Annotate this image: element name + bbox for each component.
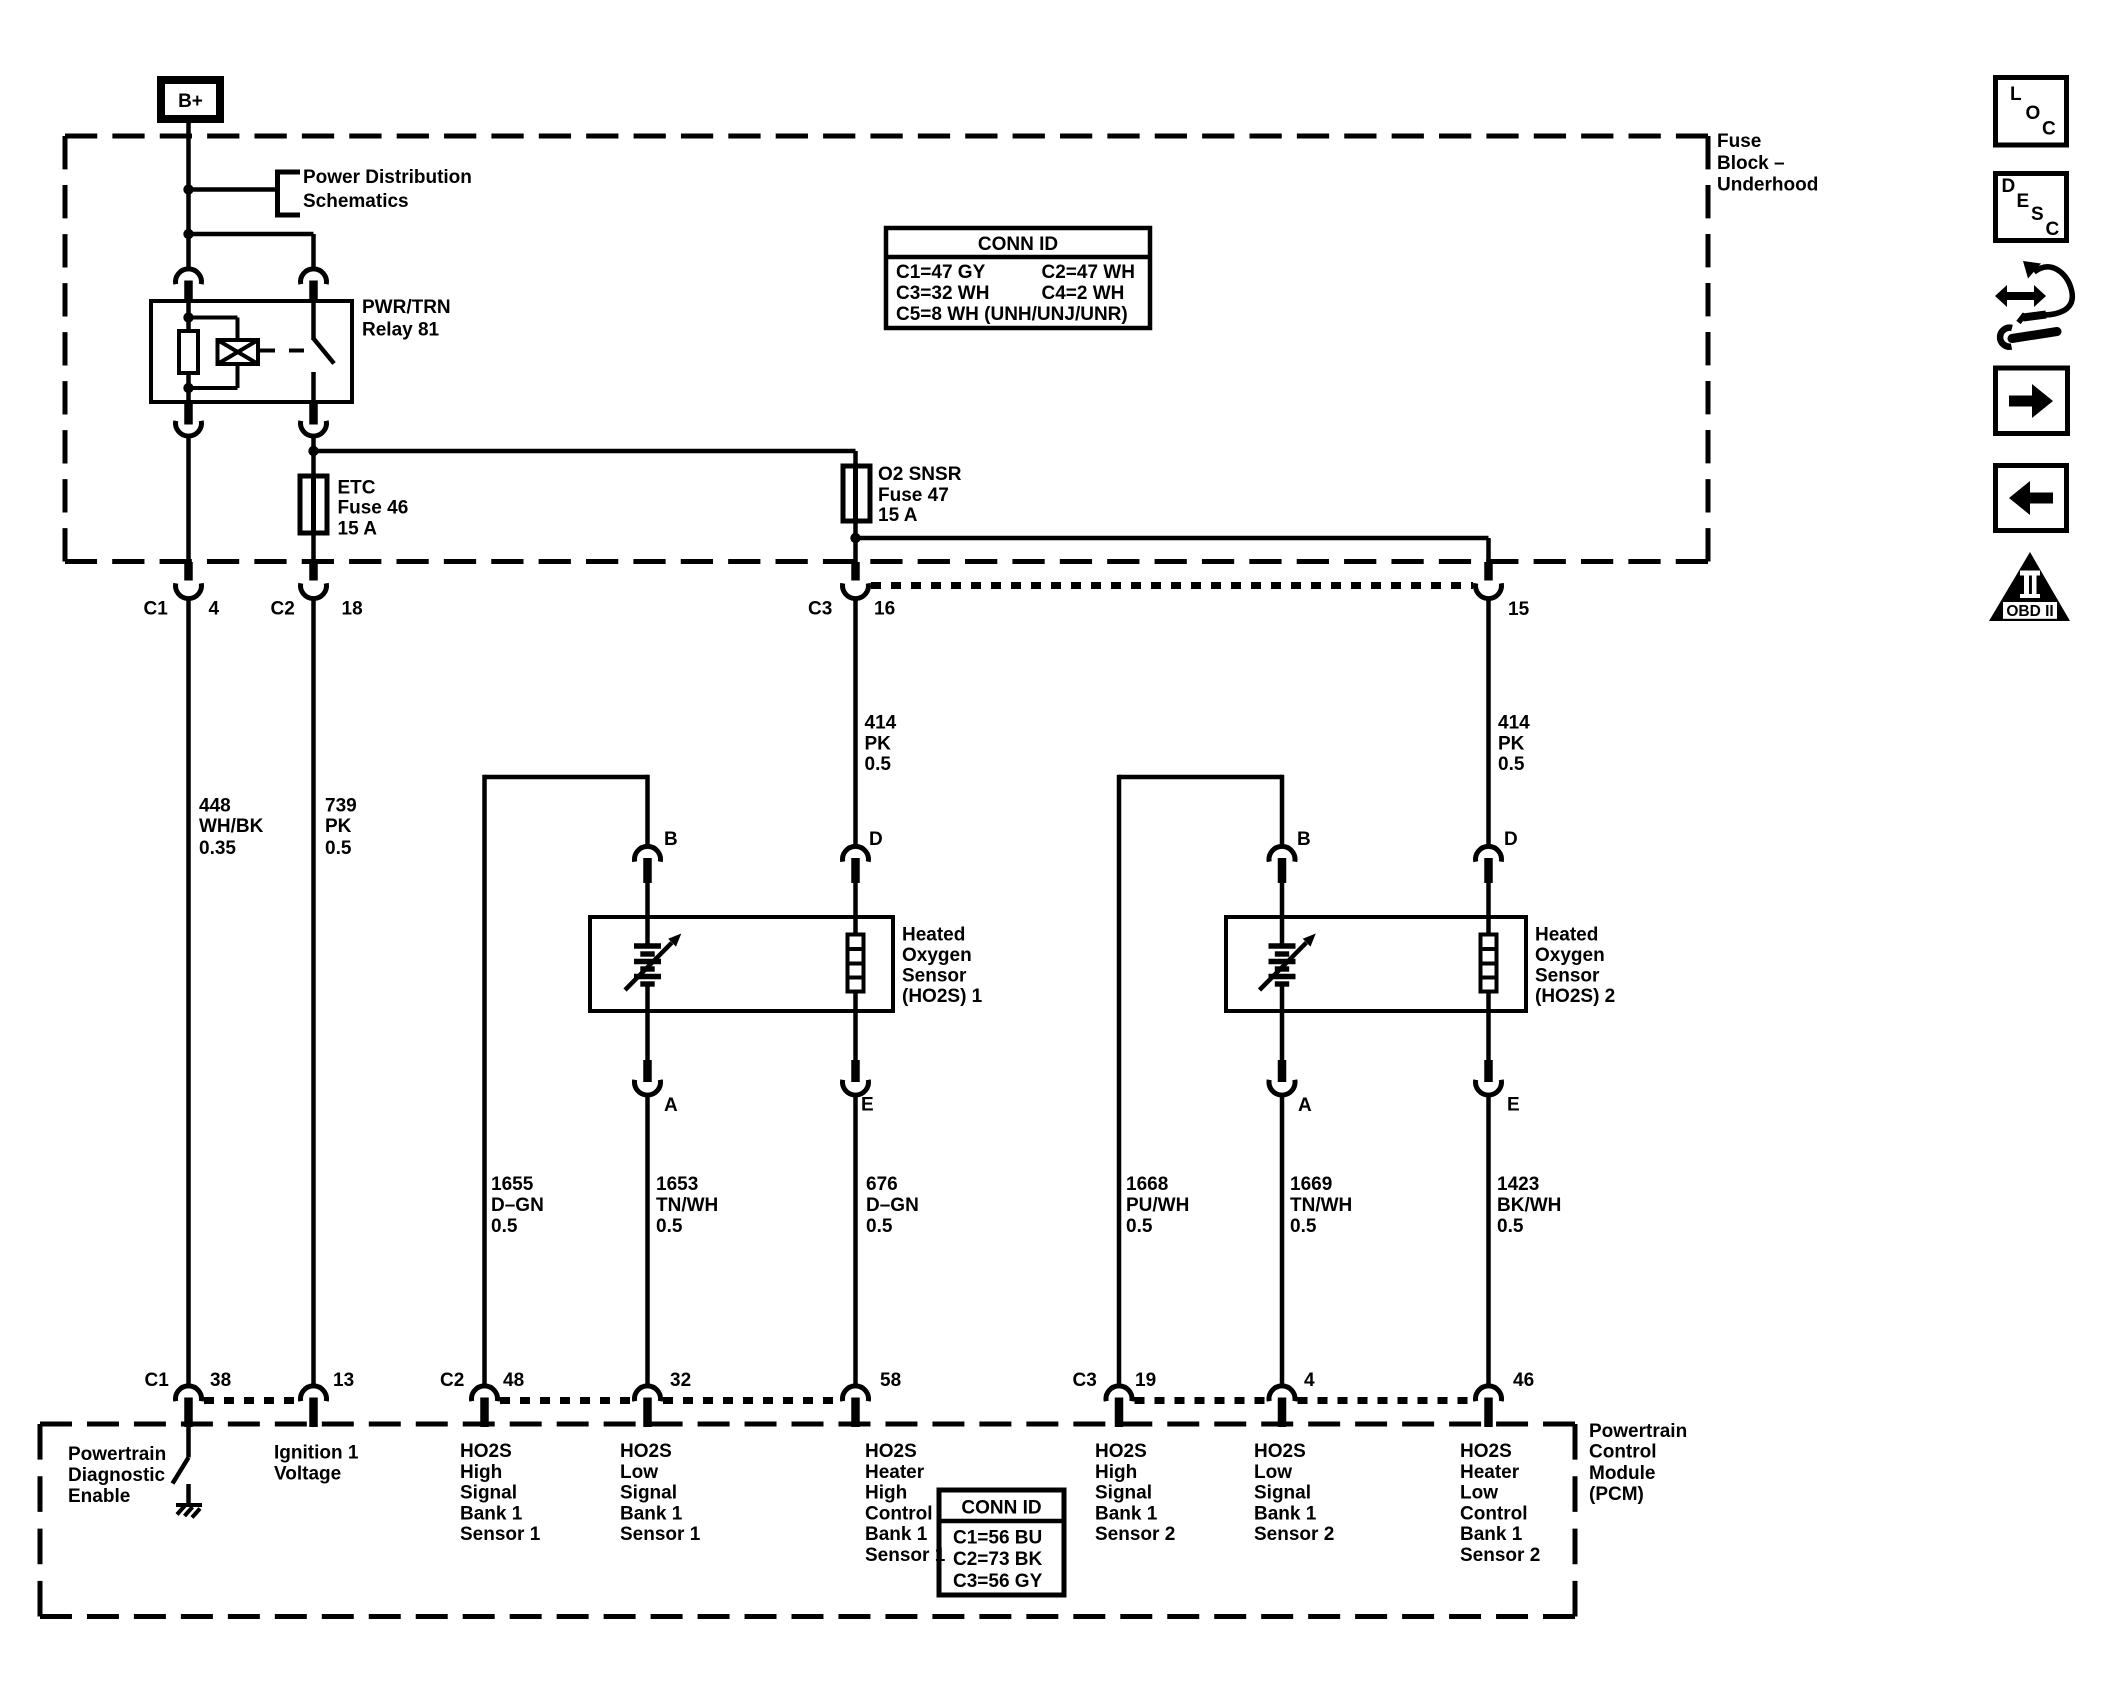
svg-text:38: 38 [210,1370,231,1391]
svg-text:OBD II: OBD II [2006,603,2053,620]
svg-text:Powertrain: Powertrain [1589,1421,1687,1442]
svg-text:Low: Low [1254,1462,1292,1483]
svg-text:Schematics: Schematics [303,191,409,212]
svg-text:(PCM): (PCM) [1589,1484,1644,1505]
svg-text:L: L [2010,84,2022,105]
svg-text:1668: 1668 [1126,1174,1168,1195]
svg-text:32: 32 [670,1370,691,1391]
svg-text:TN/WH: TN/WH [1290,1195,1352,1216]
svg-text:O2 SNSR: O2 SNSR [878,464,962,485]
svg-text:Ignition 1: Ignition 1 [274,1443,359,1464]
svg-text:C3=32 WH: C3=32 WH [896,283,989,304]
svg-text:0.5: 0.5 [865,754,892,775]
svg-text:D–GN: D–GN [491,1195,544,1216]
svg-text:Control: Control [865,1503,933,1524]
svg-text:0.5: 0.5 [866,1216,893,1237]
svg-text:High: High [865,1483,907,1504]
svg-text:D: D [869,829,883,850]
svg-text:CONN ID: CONN ID [978,234,1058,255]
svg-text:16: 16 [874,599,895,620]
svg-text:Heated: Heated [1535,925,1598,946]
svg-text:D–GN: D–GN [866,1195,919,1216]
svg-text:Signal: Signal [620,1483,677,1504]
svg-text:58: 58 [880,1370,901,1391]
svg-text:0.5: 0.5 [1497,1216,1524,1237]
svg-text:C4=2 WH: C4=2 WH [1042,283,1125,304]
svg-text:PU/WH: PU/WH [1126,1195,1189,1216]
svg-text:Sensor: Sensor [1535,966,1600,987]
svg-text:C1: C1 [145,1370,170,1391]
svg-text:C2: C2 [271,599,295,620]
svg-text:Bank 1: Bank 1 [1254,1503,1317,1524]
svg-text:D: D [2002,176,2016,197]
svg-text:676: 676 [866,1174,898,1195]
svg-text:PK: PK [1498,733,1525,754]
svg-text:Signal: Signal [460,1483,517,1504]
svg-text:Fuse 46: Fuse 46 [338,498,409,519]
svg-text:Fuse: Fuse [1717,131,1761,152]
svg-text:A: A [664,1095,678,1116]
svg-text:Heater: Heater [1460,1462,1520,1483]
svg-text:Power Distribution: Power Distribution [303,167,472,188]
svg-text:1423: 1423 [1497,1174,1539,1195]
svg-text:13: 13 [333,1370,354,1391]
svg-text:Voltage: Voltage [274,1464,341,1485]
svg-text:0.5: 0.5 [491,1216,518,1237]
svg-text:B+: B+ [178,91,203,112]
svg-text:Heater: Heater [865,1462,925,1483]
svg-text:Signal: Signal [1254,1483,1311,1504]
svg-text:4: 4 [1304,1370,1315,1391]
svg-text:Control: Control [1460,1503,1528,1524]
svg-text:PK: PK [325,816,352,837]
svg-text:C2=47 WH: C2=47 WH [1042,262,1135,283]
svg-text:15: 15 [1508,599,1530,620]
svg-text:D: D [1504,829,1518,850]
svg-text:Low: Low [1460,1483,1498,1504]
svg-text:Enable: Enable [68,1486,130,1507]
svg-text:High: High [1095,1462,1137,1483]
svg-text:(HO2S) 1: (HO2S) 1 [902,986,983,1007]
svg-text:Bank 1: Bank 1 [620,1503,683,1524]
svg-text:C: C [2042,119,2056,140]
svg-text:Heated: Heated [902,925,965,946]
svg-text:Bank 1: Bank 1 [1460,1524,1523,1545]
svg-text:Diagnostic: Diagnostic [68,1465,166,1486]
svg-text:Sensor 2: Sensor 2 [1095,1524,1175,1545]
svg-text:1655: 1655 [491,1174,534,1195]
svg-text:Fuse 47: Fuse 47 [878,485,949,506]
svg-text:HO2S: HO2S [1254,1441,1306,1462]
svg-text:B: B [664,829,678,850]
svg-text:BK/WH: BK/WH [1497,1195,1561,1216]
svg-text:Relay 81: Relay 81 [362,320,440,341]
svg-text:0.5: 0.5 [1126,1216,1153,1237]
svg-text:Sensor 2: Sensor 2 [1254,1524,1334,1545]
svg-text:B: B [1297,829,1311,850]
svg-text:E: E [2017,191,2030,212]
svg-text:Oxygen: Oxygen [902,945,972,966]
svg-text:Bank 1: Bank 1 [1095,1503,1158,1524]
svg-text:C1=47 GY: C1=47 GY [896,262,986,283]
svg-text:48: 48 [503,1370,524,1391]
svg-text:ETC: ETC [338,478,376,499]
svg-text:Bank 1: Bank 1 [865,1524,928,1545]
svg-text:C5=8 WH (UNH/UNJ/UNR): C5=8 WH (UNH/UNJ/UNR) [896,304,1128,325]
svg-text:448: 448 [199,795,231,816]
svg-text:HO2S: HO2S [620,1441,672,1462]
svg-text:Sensor 1: Sensor 1 [620,1524,701,1545]
svg-text:1669: 1669 [1290,1174,1332,1195]
svg-text:Block –: Block – [1717,153,1785,174]
svg-text:0.35: 0.35 [199,838,236,859]
svg-text:E: E [861,1095,874,1116]
svg-text:18: 18 [342,599,363,620]
svg-text:0.5: 0.5 [1498,754,1525,775]
svg-text:A: A [1298,1095,1312,1116]
svg-text:HO2S: HO2S [1095,1441,1147,1462]
svg-text:C2: C2 [440,1370,464,1391]
svg-text:1653: 1653 [656,1174,698,1195]
svg-text:Underhood: Underhood [1717,175,1818,196]
svg-text:High: High [460,1462,502,1483]
svg-text:Sensor 2: Sensor 2 [1460,1545,1540,1566]
svg-text:C3=56 GY: C3=56 GY [953,1571,1043,1592]
svg-text:C: C [2046,219,2060,240]
svg-text:15 A: 15 A [338,519,378,540]
svg-text:0.5: 0.5 [325,838,352,859]
svg-text:E: E [1507,1095,1520,1116]
svg-text:414: 414 [1498,713,1530,734]
svg-text:0.5: 0.5 [656,1216,683,1237]
svg-text:Sensor 1: Sensor 1 [865,1545,946,1566]
svg-text:(HO2S) 2: (HO2S) 2 [1535,986,1615,1007]
svg-text:Low: Low [620,1462,658,1483]
svg-text:O: O [2026,103,2041,124]
svg-text:414: 414 [865,713,897,734]
svg-text:HO2S: HO2S [865,1441,917,1462]
svg-text:C1=56 BU: C1=56 BU [953,1528,1042,1549]
svg-text:TN/WH: TN/WH [656,1195,718,1216]
svg-text:Oxygen: Oxygen [1535,945,1605,966]
svg-text:C3: C3 [808,599,832,620]
svg-text:HO2S: HO2S [1460,1441,1512,1462]
svg-text:C2=73 BK: C2=73 BK [953,1549,1043,1570]
svg-text:Sensor: Sensor [902,966,967,987]
svg-text:Powertrain: Powertrain [68,1444,166,1465]
svg-text:C1: C1 [144,599,169,620]
svg-text:19: 19 [1135,1370,1156,1391]
svg-text:739: 739 [325,795,357,816]
svg-text:PWR/TRN: PWR/TRN [362,297,451,318]
svg-text:CONN ID: CONN ID [961,1498,1041,1519]
svg-text:Bank 1: Bank 1 [460,1503,523,1524]
svg-text:0.5: 0.5 [1290,1216,1317,1237]
svg-text:Signal: Signal [1095,1483,1152,1504]
svg-text:Control: Control [1589,1442,1657,1463]
svg-text:4: 4 [209,599,220,620]
svg-text:46: 46 [1513,1370,1534,1391]
svg-text:S: S [2031,204,2044,225]
svg-text:C3: C3 [1073,1370,1097,1391]
svg-text:WH/BK: WH/BK [199,816,264,837]
svg-text:HO2S: HO2S [460,1441,512,1462]
svg-text:PK: PK [865,733,892,754]
svg-text:Sensor 1: Sensor 1 [460,1524,541,1545]
svg-text:15 A: 15 A [878,505,918,526]
svg-text:Module: Module [1589,1463,1656,1484]
